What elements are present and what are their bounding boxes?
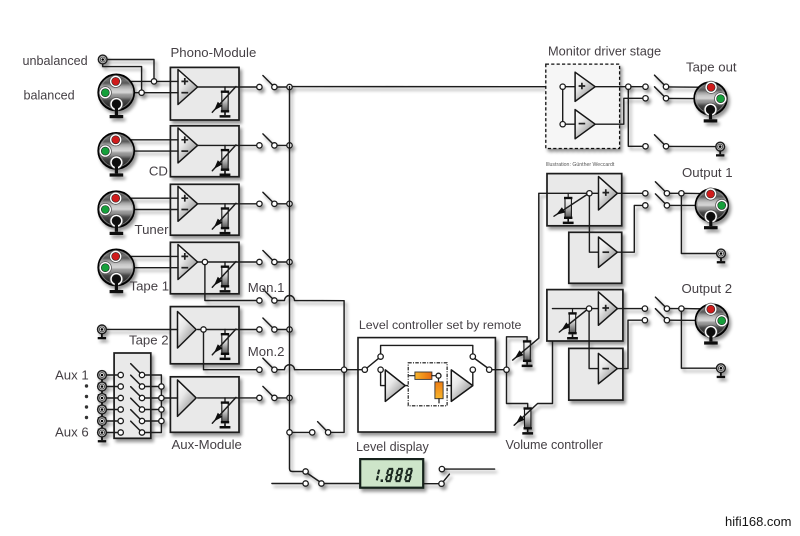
- RCA input unbalanced: [98, 55, 107, 64]
- wire shunt resistor ground stub: [438, 399, 440, 403]
- node tape-out hot: [626, 84, 631, 89]
- XLR input Tape 1: [98, 249, 134, 293]
- display switch upper contact: [303, 469, 308, 474]
- Output 1 driver module box: [547, 174, 622, 226]
- wire tape-out cold to XLR pin 3: [669, 97, 722, 99]
- wire aux collector top: [145, 375, 162, 384]
- node aux collector 5: [159, 418, 164, 423]
- output1 hot switch: [643, 191, 648, 196]
- wire aux collector bus: [160, 387, 162, 422]
- XLR output Tape out: [694, 81, 727, 122]
- output2 cold switch: [642, 318, 647, 323]
- wire output2 input line: [553, 308, 587, 310]
- wire aux collector row 5: [145, 420, 159, 422]
- wire Mon.1 to level-controller node (hops bus): [277, 296, 344, 368]
- feedback pot wiper Output 2: [559, 310, 586, 332]
- wire display stub input: [272, 483, 303, 485]
- wire cd amp output: [198, 144, 257, 146]
- node output2 drive: [586, 306, 591, 311]
- svg-text:Monitor driver stage: Monitor driver stage: [548, 44, 661, 59]
- node tape2 record tap: [201, 327, 206, 332]
- tape-out unbalanced switch: [643, 144, 648, 149]
- aux selector switch S-Aux4: [118, 407, 123, 412]
- wire tape1 amp output: [198, 261, 257, 263]
- wire Aux 4 input: [106, 409, 118, 411]
- aux selector switch S-Aux3: [118, 395, 123, 400]
- wire LCD output: [423, 483, 439, 485]
- wire Aux 6 input: [106, 432, 118, 434]
- node bus tap S-CD: [287, 143, 292, 148]
- wire Aux 1 input: [106, 374, 118, 376]
- node unbalanced/+ junction: [151, 79, 156, 84]
- Tape 1 module box: [170, 242, 239, 293]
- wire + driver output: [595, 86, 625, 88]
- svg-text:Tape 1: Tape 1: [130, 279, 170, 294]
- wire cd red pin to + input: [116, 139, 178, 141]
- wire LCD switch output stub: [445, 468, 495, 470]
- wire node down to - driver: [589, 196, 598, 252]
- display changeover lever: [308, 473, 320, 481]
- Phono module box: [170, 67, 239, 120]
- display-source switch: [310, 430, 315, 435]
- svg-text:hifi168.com: hifi168.com: [725, 514, 791, 529]
- node aux collector 4: [159, 407, 164, 412]
- op-amp CD module (balanced input): [178, 128, 198, 163]
- op-amp Phono module (balanced input): [178, 70, 198, 105]
- RCA output 1 unbalanced: [717, 249, 726, 263]
- wire node to XLR pin 2: [684, 192, 711, 194]
- wire aux amp output: [198, 397, 257, 399]
- svg-text:Aux 1: Aux 1: [55, 368, 89, 383]
- input select switch S-Aux: [257, 395, 262, 400]
- node bus tap S-Phono: [287, 84, 292, 89]
- aux selector switch S-Aux1: [118, 372, 123, 377]
- svg-text:Mon.1: Mon.1: [248, 280, 285, 295]
- driver amp - (Output 1): [599, 237, 618, 267]
- wire node to + driver: [592, 192, 598, 194]
- wire node to + driver: [592, 308, 599, 310]
- wire tuner amp output: [198, 203, 257, 205]
- driver amp + (Output 1): [599, 177, 618, 210]
- node attenuator tap: [436, 373, 441, 378]
- op-amp Aux module: [178, 380, 197, 417]
- node volume splitter: [504, 367, 509, 372]
- wire aux collector to Aux module input: [164, 397, 177, 399]
- wire tap to shunt resistor: [438, 378, 440, 382]
- wire + driver output to hot switch: [618, 308, 643, 310]
- node output1 drive: [587, 191, 592, 196]
- wire - driver output: [595, 98, 643, 124]
- buffer amp U-LC1: [385, 370, 405, 402]
- wire tuner red pin to + input: [116, 197, 178, 199]
- wire aux collector bottom: [145, 424, 162, 433]
- wire monitor input to + driver: [565, 86, 575, 88]
- gain pot wiper arrow Tape 2 module: [212, 329, 236, 355]
- Level controller box: [358, 338, 495, 432]
- wire aux collector row 4: [145, 409, 159, 411]
- XLR input Tuner: [98, 191, 134, 235]
- level controller input contact: [362, 367, 367, 372]
- tape-out cold switch: [643, 96, 648, 101]
- feedback pot Output 1: [567, 193, 569, 197]
- svg-text:Mon.2: Mon.2: [248, 344, 285, 359]
- gain pot wiper arrow Tape 1 module: [212, 262, 236, 288]
- wire Aux 5 input: [106, 420, 118, 422]
- Output 2 driver module box: [547, 290, 623, 341]
- input select switch S-CD: [257, 143, 262, 148]
- volume pot P1 wiper to Output 1 module: [513, 193, 547, 360]
- driver amp + (Output 2): [598, 292, 617, 325]
- svg-text:Aux-Module: Aux-Module: [172, 437, 242, 452]
- wire Aux 2 input: [106, 386, 118, 388]
- svg-text:Tape 2: Tape 2: [129, 333, 169, 348]
- svg-text:Volume controller: Volume controller: [506, 438, 603, 452]
- XLR Output 2: [696, 303, 729, 345]
- wire to - driver: [565, 123, 575, 125]
- wire phono amp output: [198, 86, 257, 88]
- Aux module box: [170, 377, 239, 433]
- buffer amp U-LC2: [451, 370, 473, 402]
- node bus tap S-Aux: [287, 395, 292, 400]
- svg-text:Tuner: Tuner: [135, 222, 170, 237]
- svg-text:Aux 6: Aux 6: [55, 425, 89, 440]
- XLR input CD: [98, 133, 134, 177]
- svg-text:Output 1: Output 1: [682, 165, 733, 180]
- svg-text:balanced: balanced: [24, 89, 75, 103]
- driver amp - (Output 2): [598, 353, 617, 383]
- aux selector switch S-Aux2: [118, 384, 123, 389]
- contact to buffer chain: [378, 367, 383, 372]
- RCA output 2 unbalanced: [717, 364, 726, 378]
- input select switch S-Tuner: [257, 201, 262, 206]
- input select switch S-Tape2: [257, 327, 262, 332]
- wire series resistor to node: [432, 375, 436, 377]
- node bus tap S-Tuner: [287, 201, 292, 206]
- wire output2 unbalanced tap down: [681, 311, 716, 368]
- wire tape-out unbalanced tap: [628, 89, 643, 146]
- variable resistor (gain pot) in Aux module: [224, 398, 226, 402]
- wire to RCA tape out: [669, 145, 716, 147]
- node monitor input: [560, 84, 565, 89]
- LCD output switch: [439, 481, 444, 486]
- wire aux collector row 2: [145, 386, 159, 388]
- node bus tap S-Tape1: [287, 259, 292, 264]
- volume pot P1: [522, 340, 533, 367]
- gain pot wiper arrow Tuner module: [212, 203, 236, 229]
- gain pot wiper arrow Aux module: [212, 397, 236, 423]
- RCA input Aux 5: [98, 417, 107, 431]
- input select switch S-Phono: [257, 84, 262, 89]
- wire tape-out hot to XLR pin 2: [669, 86, 711, 88]
- svg-text:Level display: Level display: [356, 440, 430, 454]
- wire cold to XLR pin 3: [670, 204, 722, 206]
- node aux collector 3: [159, 395, 164, 400]
- gain pot wiper arrow Phono module: [212, 87, 236, 113]
- input select switch S-Tape1: [257, 259, 262, 264]
- feedback pot wiper Output 1: [554, 195, 587, 217]
- monitor switch Mon.2: [257, 367, 262, 372]
- wire bus to display-source switch: [292, 431, 309, 433]
- RCA input Aux 6: [98, 428, 107, 442]
- wire node down to - driver: [589, 311, 598, 368]
- remote attenuator box (dashed): [408, 363, 447, 406]
- monitor switch Mon.1: [257, 298, 262, 303]
- wire input contact to buffer 1: [381, 372, 386, 385]
- svg-text:unbalanced: unbalanced: [23, 54, 88, 68]
- wire node to level controller input: [347, 369, 362, 371]
- op-amp Tape 1 module (balanced input): [178, 245, 198, 280]
- RCA input Tape 2: [98, 325, 107, 339]
- wire bypass rail: [381, 345, 473, 354]
- wire to LCD module: [324, 483, 360, 485]
- bypass switch right lever: [475, 359, 487, 368]
- wire tape2 input: [106, 328, 177, 330]
- wire - driver output up to cold switch: [617, 205, 642, 252]
- driver amp - (monitor): [575, 110, 595, 139]
- wire tape2 tap to Mon.2 switch: [204, 332, 257, 370]
- XLR Output 1: [696, 188, 729, 229]
- wire - driver output up to cold switch: [617, 320, 642, 368]
- display stub contact: [303, 481, 308, 486]
- wire attenuator input stub: [410, 375, 415, 377]
- wire level controller output: [492, 369, 504, 371]
- node output2 unbal tap: [679, 306, 684, 311]
- aux selector switch S-Aux5: [118, 418, 123, 423]
- tape-out hot switch: [643, 84, 648, 89]
- svg-text:Output 2: Output 2: [682, 281, 733, 296]
- node bus tap level display: [287, 430, 292, 435]
- LCD level display module: [360, 459, 423, 488]
- wire display-source switch to level-controller node: [331, 372, 344, 432]
- RCA input Aux 3: [98, 394, 107, 408]
- wire node to tape-out hot switch: [631, 86, 643, 88]
- output2 hot switch: [642, 306, 647, 311]
- RCA output tape out unbalanced: [716, 142, 725, 156]
- RCA input Aux 4: [98, 405, 107, 419]
- wire attenuator to buffer 2: [447, 385, 451, 387]
- aux selector switch S-Aux6: [118, 430, 123, 435]
- variable resistor (gain pot) in Phono module: [224, 87, 226, 91]
- contact - driver input: [560, 122, 565, 127]
- CD module box: [170, 126, 239, 177]
- Tape 2 module box: [170, 307, 239, 364]
- op-amp Tuner module (balanced input): [178, 186, 198, 221]
- Tuner module box: [170, 184, 239, 235]
- op-amp Tape 2 module: [178, 312, 197, 349]
- node level-controller input junction: [341, 367, 346, 372]
- wire phono red pin to + input: [116, 80, 178, 82]
- wire + driver output to hot switch: [617, 192, 642, 194]
- LCD reading 1.888 (seven-segment): [377, 469, 413, 482]
- node aux collector 2: [159, 384, 164, 389]
- node output1 unbal tap: [679, 191, 684, 196]
- Monitor driver stage box (dashed): [546, 64, 620, 148]
- node bus tap S-Tape2: [287, 327, 292, 332]
- svg-text:Tape out: Tape out: [686, 60, 737, 75]
- XLR input balanced (Phono): [98, 74, 134, 118]
- feedback pot Output 2: [572, 309, 574, 313]
- variable resistor (gain pot) in Tuner module: [224, 204, 226, 208]
- RCA input Aux 1: [98, 371, 107, 385]
- output1 cold switch: [643, 203, 648, 208]
- wire to volume pot 1: [507, 337, 528, 367]
- wire tape1 tap to Mon.1 switch: [205, 265, 257, 301]
- wire buffer 1 to attenuator: [405, 385, 408, 387]
- wire monitor input down to - driver: [562, 89, 564, 121]
- wire to volume pot 2: [507, 372, 528, 407]
- variable resistor (gain pot) in Tape 2 module: [224, 330, 226, 334]
- wire output1 unbalanced tap down: [681, 196, 716, 254]
- Aux selector box: [114, 353, 151, 438]
- Output1 - driver module box: [569, 232, 622, 283]
- svg-text:CD: CD: [149, 164, 168, 179]
- wire tape1 red pin to + input: [116, 255, 178, 257]
- display switch lower contact: [319, 481, 324, 486]
- wire unbalanced input to + node: [107, 60, 154, 79]
- level controller output contact: [487, 367, 492, 372]
- dots between Aux labels: [85, 384, 88, 387]
- wire phono green pin to - input: [105, 92, 178, 94]
- wire cold to XLR pin 3: [670, 319, 722, 321]
- bypass switch left lever: [367, 358, 379, 368]
- driver amp + (monitor): [575, 72, 595, 101]
- wire node to XLR pin 2: [684, 308, 711, 310]
- wire buffer 2 output up: [472, 372, 474, 385]
- node tape1 record tap: [202, 259, 207, 264]
- bypass contact upper-left: [378, 354, 383, 359]
- volume pot P2: [522, 407, 533, 434]
- svg-text:Illustration: Günther Weccardt: Illustration: Günther Weccardt: [546, 162, 615, 168]
- wire bus to monitor driver stage (top horizontal): [292, 86, 563, 88]
- wire aux collector row 3: [145, 397, 159, 399]
- resistor R-shunt (orange): [435, 382, 443, 399]
- wire output1 input line: [547, 192, 587, 194]
- wire tape1 green pin to - input: [105, 267, 178, 269]
- node unbalanced/- junction: [139, 90, 144, 95]
- wire cd green pin to - input: [105, 150, 178, 152]
- wire tuner green pin to - input: [105, 209, 178, 211]
- bypass contact upper-right: [470, 354, 475, 359]
- gain pot wiper arrow CD module: [212, 145, 236, 171]
- wire Aux 3 input: [106, 397, 118, 399]
- wire tape2 amp output: [198, 329, 257, 331]
- volume pot P2 wiper to Output 2 module: [514, 309, 552, 426]
- Output2 - driver module box: [569, 348, 623, 400]
- variable resistor (gain pot) in Tape 1 module: [224, 262, 226, 266]
- wire Mon.2 to level-controller node (hops bus): [277, 365, 341, 370]
- wire unbalanced input to - node: [103, 64, 142, 90]
- wire main selection bus (vertical): [290, 87, 303, 472]
- variable resistor (gain pot) in CD module: [224, 145, 226, 149]
- resistor R-series (orange): [415, 372, 432, 379]
- RCA input Aux 2: [98, 382, 107, 396]
- contact buffer output: [470, 367, 475, 372]
- svg-text:Level controller set by remote: Level controller set by remote: [359, 318, 522, 332]
- svg-text:Phono-Module: Phono-Module: [171, 45, 257, 60]
